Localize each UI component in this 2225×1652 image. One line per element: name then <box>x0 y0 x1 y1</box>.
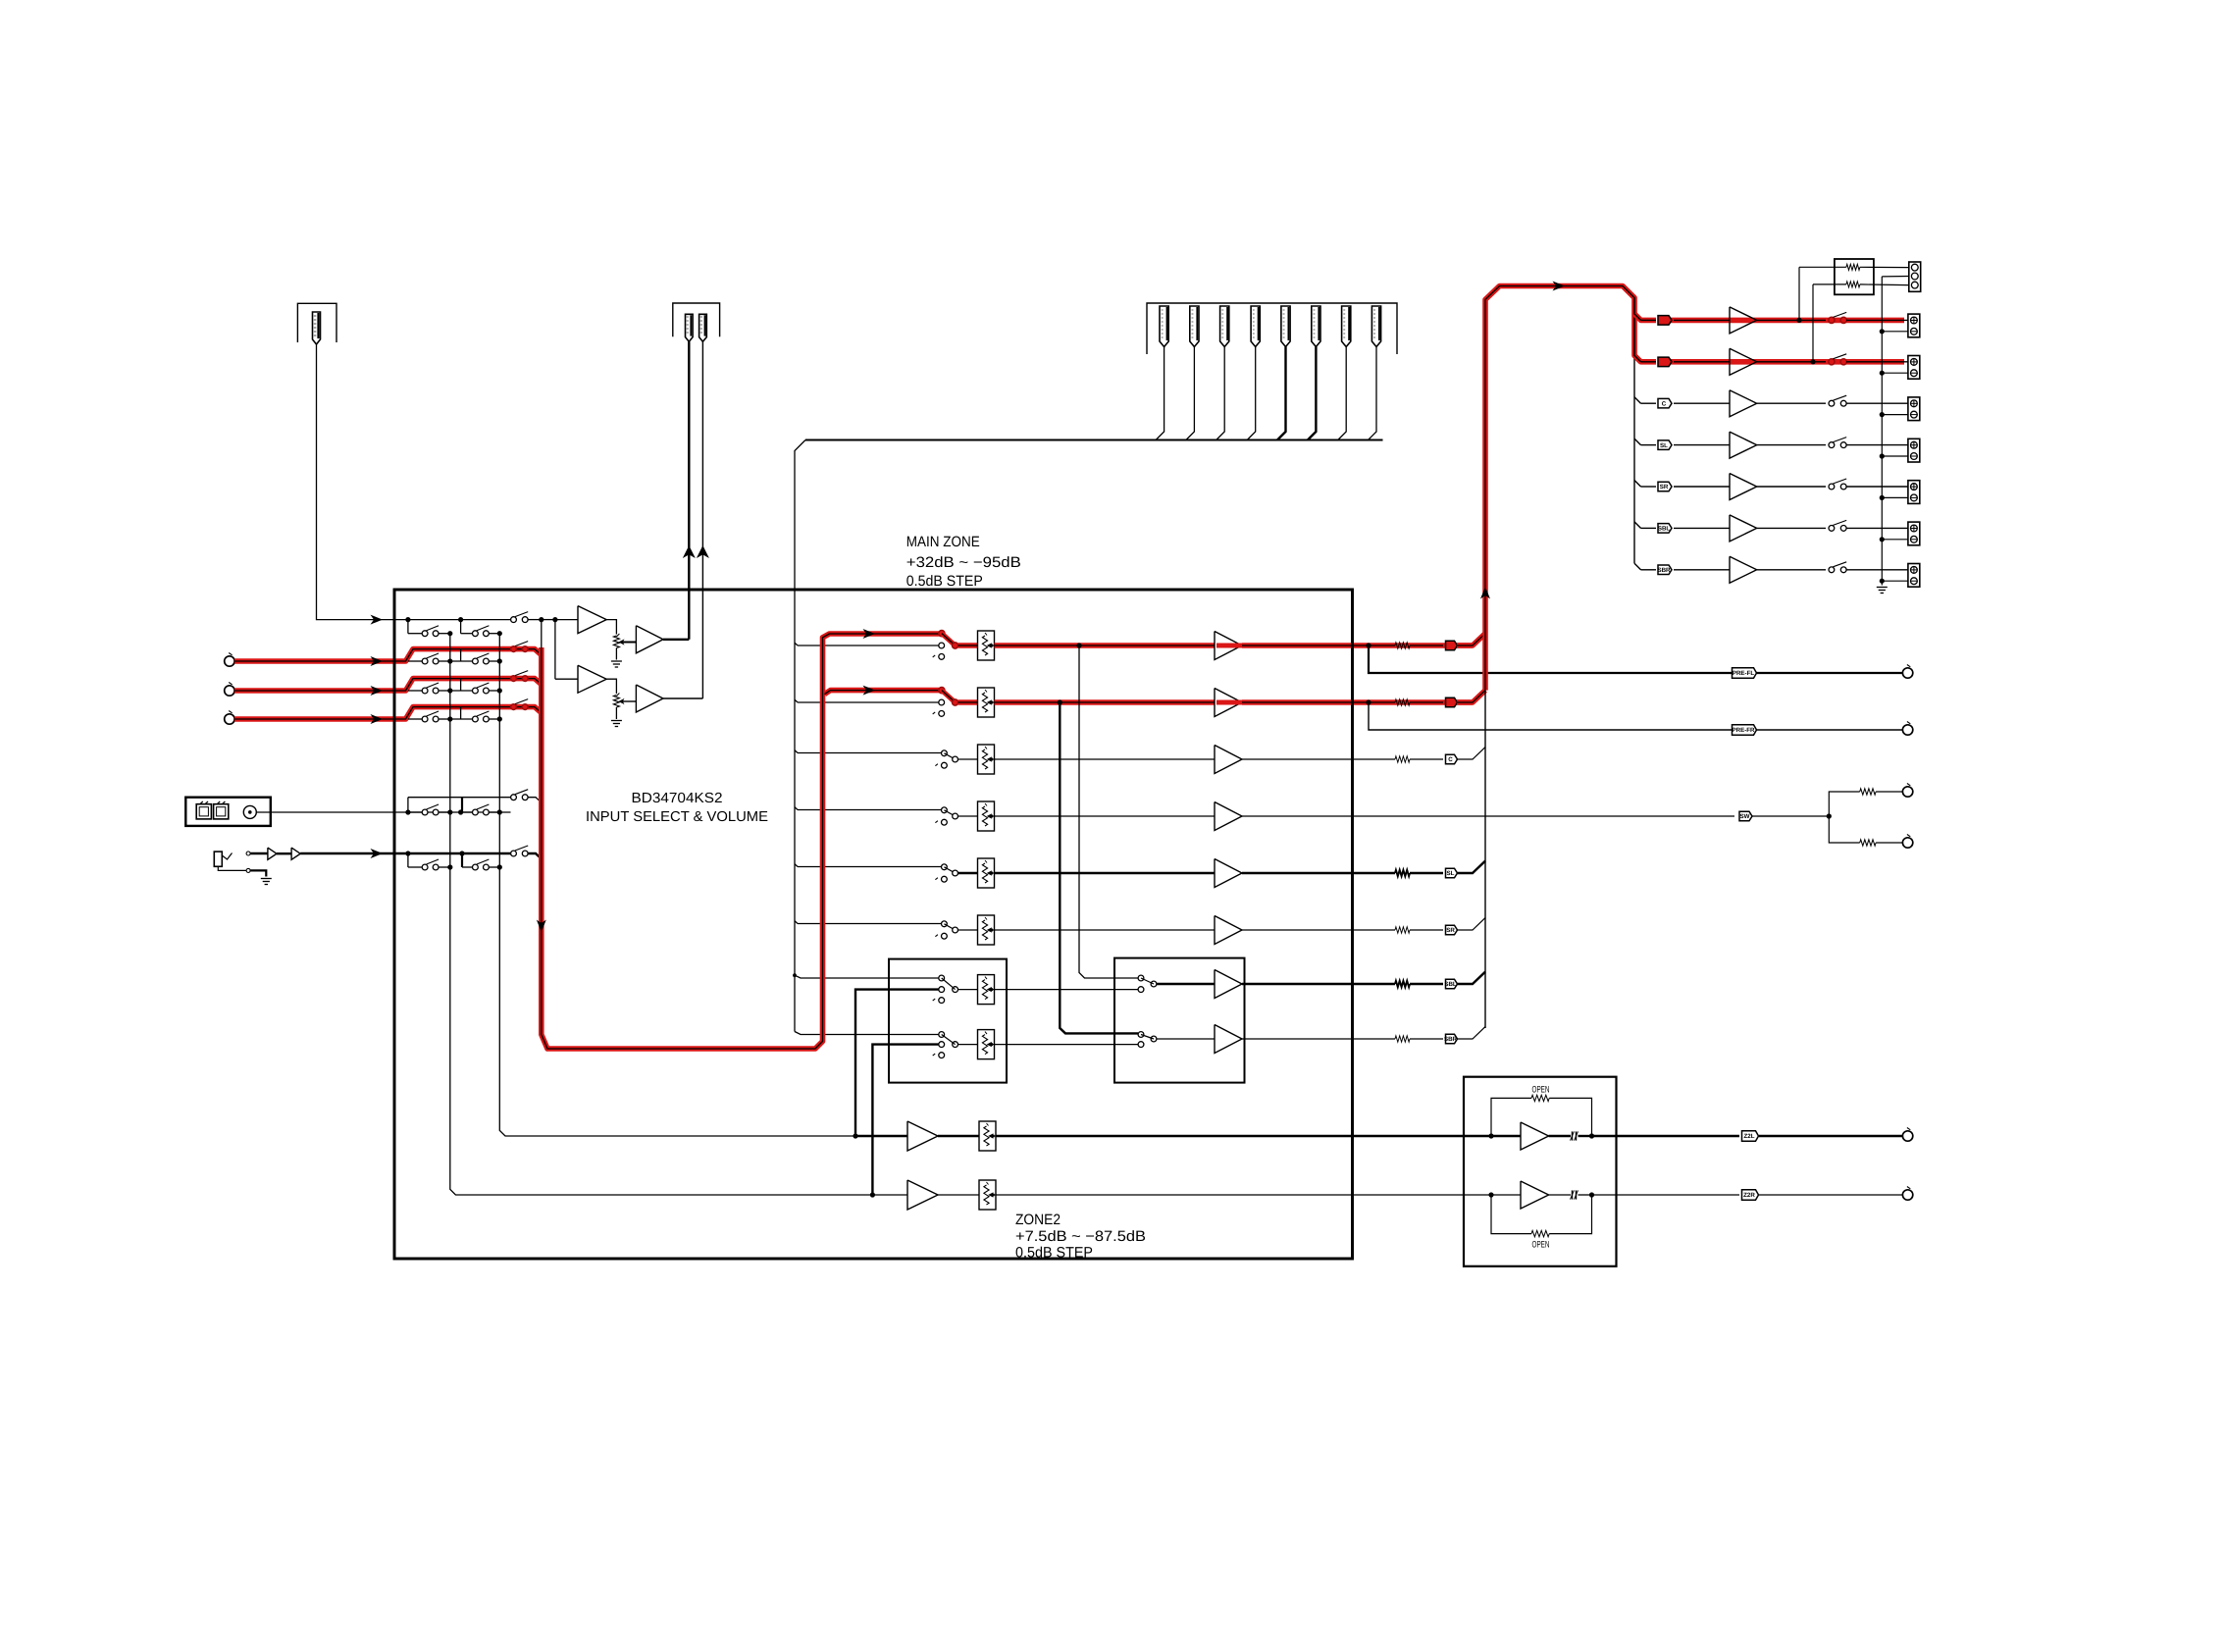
wire SL amp to relay <box>1757 444 1826 446</box>
svg-text:C: C <box>1662 400 1667 407</box>
net tag SR <box>1446 925 1458 935</box>
wire FR relay to terminal <box>1846 361 1908 363</box>
power amp SBR <box>1730 556 1757 583</box>
ground attenuator row1 <box>611 660 622 662</box>
svg-text:SBL: SBL <box>1444 981 1457 988</box>
arrow collector up <box>1480 587 1490 599</box>
selector red row 1 taps <box>408 660 422 662</box>
wire bank pin 3 to DSP bus <box>1216 347 1225 440</box>
wire zone2 R to tag <box>1617 1194 1740 1196</box>
connector bank pin 8 <box>1371 306 1380 347</box>
connector CN top-middle bracket <box>673 303 720 336</box>
SW split lower resistor <box>1829 816 1859 843</box>
attenuator row1 <box>613 636 619 648</box>
wire SR relay to terminal <box>1846 486 1908 488</box>
fan bend SBL <box>1634 522 1641 529</box>
wire C amp to box edge <box>1242 758 1353 760</box>
selector row1 wire (from top-left connector) <box>394 619 511 621</box>
arrow phones input <box>371 849 384 858</box>
arrow red bus down <box>537 920 546 933</box>
selector row1 through switch <box>511 617 517 623</box>
selected-input red bus <box>541 620 543 650</box>
relay switch SBL <box>1829 526 1835 532</box>
feedback resistor OPEN <box>1491 1098 1531 1136</box>
phones jack sleeve wire <box>218 866 246 870</box>
connector bank pin 6 <box>1312 306 1320 347</box>
speaker terminal FL <box>1908 314 1920 337</box>
jack SW+ <box>1902 787 1912 797</box>
zone2 L row (selected) <box>853 1133 857 1138</box>
net tag SBL amp in <box>1641 527 1657 529</box>
wire SBR relay to terminal <box>1846 569 1908 571</box>
selector red row 2 taps <box>408 690 422 692</box>
wire SL to collector <box>1457 861 1485 873</box>
attenuator row2 <box>613 696 619 708</box>
junction FR to SB-assign (selected) <box>1058 699 1062 704</box>
volume switch SL <box>942 864 948 870</box>
amp SW <box>1215 802 1242 831</box>
wire zone2 L selected segment <box>855 1135 907 1137</box>
net tag SBR amp in <box>1641 569 1657 571</box>
svg-text:+7.5dB ~ −87.5dB: +7.5dB ~ −87.5dB <box>1015 1228 1146 1245</box>
connector bank pin 5 <box>1281 306 1290 347</box>
wire C volume to amp <box>995 758 1216 760</box>
connector bank pin 2 <box>1190 306 1199 347</box>
wire FL amp to relay <box>1757 319 1826 321</box>
volume switch C <box>942 750 948 756</box>
wire SBL relay to terminal <box>1846 527 1908 529</box>
relay switch C <box>1829 400 1835 406</box>
wire SBR to collector <box>1457 1027 1485 1039</box>
amp row1 b (zone L) <box>636 626 663 653</box>
selector red row 3 taps <box>408 718 422 720</box>
arrow red feed FR <box>863 686 876 696</box>
red input wire 2 <box>234 679 542 691</box>
net tag SL amp in <box>1641 444 1657 446</box>
zone2 R row <box>870 1192 875 1197</box>
wire SBL to collector <box>1457 972 1485 984</box>
wire sub mid2 to zone2 R <box>872 1045 938 1195</box>
wire FR amp to relay <box>1757 361 1826 363</box>
amp row2 a <box>555 678 578 680</box>
net tag SL <box>1446 868 1458 878</box>
resistor FR out <box>1353 699 1473 705</box>
wire PRE-FL to jack <box>1757 672 1903 674</box>
wire FR to bridge <box>1812 284 1814 362</box>
wire C tag to amp <box>1674 402 1730 404</box>
connector CN top-left body <box>313 312 321 344</box>
SBL select volume <box>958 989 978 991</box>
selector red row 2 through switch <box>511 676 517 682</box>
amp row2 b (zone R) <box>636 685 663 712</box>
SBR assign switch <box>1138 1032 1144 1038</box>
fan bend FR <box>1634 355 1656 362</box>
wire sub mid1 to zone2 L <box>855 990 939 1136</box>
volume switch FL <box>939 643 945 648</box>
bus feed row C <box>795 750 798 753</box>
ground speaker bus <box>1877 587 1888 589</box>
net tag FL <box>1446 641 1458 650</box>
selector row DAC through jog <box>407 798 409 812</box>
arrow collector top <box>1553 282 1566 291</box>
wire FL to collector <box>1457 634 1485 645</box>
wire SW amp to box edge <box>1242 815 1353 817</box>
wire Z2L tag to jack <box>1759 1135 1902 1137</box>
jack PRE-FL <box>1902 668 1912 678</box>
arrow red input 1 <box>371 656 384 666</box>
wire terminal SBL negative to bus <box>1882 539 1908 541</box>
connector bank pin 3 <box>1220 306 1229 347</box>
power amp SL <box>1730 432 1757 458</box>
bus feed SBR select top <box>795 1032 939 1035</box>
net tag PRE-FR <box>1733 725 1757 735</box>
selector row DAC taps <box>405 809 410 814</box>
selector row phones through switch <box>511 851 517 856</box>
wire terminal FL negative to bus <box>1882 331 1908 333</box>
wire bank pin 7 to DSP bus <box>1338 347 1347 440</box>
wire FL relay to terminal <box>1846 319 1908 321</box>
selector red row 3 through switch <box>511 704 517 710</box>
zone2 R volume <box>979 1180 996 1210</box>
svg-text:ZONE2: ZONE2 <box>1015 1212 1061 1228</box>
svg-text:SBL: SBL <box>1658 526 1671 533</box>
ground phones <box>261 878 272 880</box>
power amp FR <box>1730 348 1757 375</box>
wire FR amp to box edge <box>1242 699 1353 705</box>
wire FL volume to amp <box>995 643 1216 648</box>
svg-text:INPUT SELECT & VOLUME: INPUT SELECT & VOLUME <box>586 809 768 825</box>
wire SR amp to box edge <box>1242 929 1353 931</box>
wire FR volume to amp <box>995 699 1216 705</box>
selector red row 1 through switch <box>511 646 517 652</box>
svg-text:SL: SL <box>1660 442 1668 449</box>
amp C <box>1215 746 1242 774</box>
DSP bus corner down <box>795 440 805 1032</box>
red input wire 1 <box>234 649 542 661</box>
bus feed row SW <box>795 807 798 810</box>
amp zone2 L <box>907 1121 938 1151</box>
volume attenuator FR <box>958 699 978 705</box>
SB amp box <box>1114 958 1245 1083</box>
SBR select switch <box>939 1032 945 1038</box>
net tag SBL <box>1446 979 1458 989</box>
zone2 R through OPEN box <box>1464 1194 1521 1196</box>
red bus branch FR <box>825 691 942 695</box>
wire bank pin 4 to DSP bus <box>1247 347 1256 440</box>
jack SW- <box>1902 838 1912 848</box>
wire SR volume to amp <box>995 929 1216 931</box>
fan bend SBR <box>1634 563 1641 570</box>
wire C relay to terminal <box>1846 402 1908 404</box>
connector CN top-middle pin L <box>686 314 694 341</box>
amp SR <box>1215 916 1242 945</box>
wire SL amp to box edge <box>1242 872 1353 874</box>
wire from top-left connector to row1 <box>317 344 395 620</box>
net tag Z2R <box>1742 1190 1759 1200</box>
wire DAC to selector <box>256 811 454 813</box>
wire FL amp to box edge <box>1242 643 1353 648</box>
fan bend C <box>1634 397 1641 404</box>
speaker terminal C <box>1908 397 1920 421</box>
wire SL volume to amp <box>995 872 1216 874</box>
connector bank bracket <box>1147 303 1397 354</box>
DSP bus horizontal <box>805 439 1383 441</box>
jack PRE-FR <box>1902 725 1912 735</box>
selector row phones taps <box>405 851 410 855</box>
input jack 3 <box>225 714 234 724</box>
power amp SR <box>1730 474 1757 500</box>
connector bank pin 4 <box>1251 306 1260 347</box>
arrow red input 3 <box>371 714 384 724</box>
wire C amp to relay <box>1757 402 1826 404</box>
wire bank pin 1 to DSP bus <box>1156 347 1164 440</box>
wire SR to collector <box>1457 918 1485 930</box>
connector CN top-left bracket <box>297 303 336 342</box>
collector riser (red pair) <box>1485 286 1641 691</box>
wire SR amp to relay <box>1757 486 1826 488</box>
wire zone2 L to tag <box>1617 1135 1740 1137</box>
amp zone2 R <box>907 1180 938 1210</box>
zone select sub-box <box>889 959 1007 1083</box>
arrow into selector row1 <box>371 615 384 625</box>
speaker terminal SBR <box>1908 564 1920 588</box>
net tag FR amp in <box>1641 361 1657 363</box>
amp zone2 open L <box>1521 1122 1549 1150</box>
speaker terminal SR <box>1908 481 1920 504</box>
wire SBL amp to relay <box>1757 527 1826 529</box>
net tag FR <box>1446 697 1458 707</box>
headphone buffer amp a <box>268 848 277 859</box>
headphone jack <box>214 852 222 866</box>
wire bank pin 6 to DSP bus <box>1308 347 1317 440</box>
amp FL <box>1215 632 1242 660</box>
wire zone2 L out <box>996 1135 1464 1137</box>
arrow up zone L <box>683 545 696 558</box>
power amp SBL <box>1730 515 1757 542</box>
svg-text:SBR: SBR <box>1657 567 1671 574</box>
SW output line <box>1353 815 1735 817</box>
wire SW to split <box>1752 815 1829 817</box>
wire SBL tag to amp <box>1674 527 1730 529</box>
arrow red input 2 <box>371 686 384 696</box>
input jack 1 <box>225 656 234 666</box>
bus feed row SR <box>795 921 798 924</box>
fan bend FL <box>1634 314 1656 321</box>
svg-text:OPEN: OPEN <box>1532 1240 1550 1251</box>
connector bank pin 7 <box>1342 306 1351 347</box>
volume switch SW <box>942 807 948 813</box>
svg-text:SR: SR <box>1660 484 1669 490</box>
net tag Z2L <box>1742 1131 1759 1141</box>
volume switch SR <box>942 921 948 927</box>
mute contact <box>1572 1131 1574 1140</box>
jack zone2 R <box>1902 1190 1912 1200</box>
zone2 L volume <box>979 1121 996 1151</box>
speaker return bus <box>1881 277 1883 586</box>
wire Z2R tag to jack <box>1759 1194 1902 1196</box>
wire bank pin 8 to DSP bus <box>1369 347 1377 440</box>
arrow red feed FL <box>863 629 876 639</box>
wire SBR amp to relay <box>1757 569 1826 571</box>
SBL select switch <box>939 975 945 981</box>
main IC box border overdraw <box>394 590 1353 1259</box>
net tag SW <box>1739 811 1752 821</box>
wire SW volume to amp <box>995 815 1216 817</box>
speaker terminal SL <box>1908 439 1920 462</box>
net tag FL amp in <box>1641 319 1657 321</box>
SBR select volume <box>958 1044 978 1046</box>
DAC output jack <box>243 805 256 818</box>
SBL assign switch <box>1138 975 1144 981</box>
svg-text:PRE-FL: PRE-FL <box>1733 670 1755 677</box>
volume attenuator SL <box>958 872 978 874</box>
headphone buffer amp b <box>291 848 300 859</box>
net tag SR amp in <box>1641 486 1657 488</box>
svg-text:MAIN ZONE: MAIN ZONE <box>906 534 980 550</box>
wire SBR select to amp box <box>995 1044 1139 1046</box>
relay switch FL <box>1829 317 1835 323</box>
SW split upper resistor <box>1829 792 1859 816</box>
wire bank pin 2 to DSP bus <box>1186 347 1195 440</box>
svg-text:BD34704KS2: BD34704KS2 <box>632 791 723 806</box>
fan bend SL <box>1634 439 1641 445</box>
net tag C amp in <box>1641 402 1657 404</box>
jack zone2 L <box>1902 1131 1912 1141</box>
wire SL tag to amp <box>1674 444 1730 446</box>
wire FL to bridge <box>1798 267 1800 320</box>
wire SBL select to amp box <box>995 989 1139 991</box>
wire phones to selector (selected thick) <box>300 852 510 854</box>
mute contact <box>1572 1190 1574 1199</box>
amp SL <box>1215 859 1242 888</box>
wire FL tag to amp <box>1674 319 1730 321</box>
svg-text:SBR: SBR <box>1444 1036 1458 1043</box>
svg-text:+32dB ~ −95dB: +32dB ~ −95dB <box>906 554 1021 571</box>
bridge resistor lower <box>1813 284 1846 285</box>
svg-text:C: C <box>1448 756 1453 763</box>
volume switch FR <box>939 699 945 705</box>
resistor FL out <box>1353 643 1473 648</box>
resistor SBR out <box>1353 1038 1396 1040</box>
zone2 OPEN box <box>1464 1077 1617 1266</box>
column bus 2 (zone2 feed) <box>499 634 855 1136</box>
wire SR tag to amp <box>1674 486 1730 488</box>
wire terminal SL negative to bus <box>1882 455 1908 457</box>
amp FR <box>1215 689 1242 717</box>
wire zone2 R out <box>996 1194 1464 1196</box>
bus feed SBL select top <box>795 975 939 978</box>
amp SBL <box>1157 983 1215 985</box>
svg-text:Z2R: Z2R <box>1743 1192 1755 1199</box>
bridge resistor box <box>1835 259 1874 294</box>
wire SBR tag to amp <box>1674 569 1730 571</box>
wire SBL amp out <box>1242 983 1353 985</box>
USB DAC input box <box>185 798 270 826</box>
relay switch SR <box>1829 484 1835 490</box>
wire FR tag to amp <box>1674 361 1730 363</box>
bus feed row SL <box>795 864 798 867</box>
power amp C <box>1730 390 1757 417</box>
wire terminal C negative to bus <box>1882 414 1908 416</box>
wire SBR amp out <box>1242 1038 1353 1040</box>
wire zone R to connector <box>701 341 703 698</box>
svg-text:PRE-FR: PRE-FR <box>1732 727 1755 734</box>
pre-out FR branch <box>1366 699 1371 704</box>
wire SL relay to terminal <box>1846 444 1908 446</box>
wire bridge mid to bus <box>1882 276 1909 278</box>
resistor SR out <box>1353 929 1396 931</box>
relay switch SBR <box>1829 567 1835 573</box>
collector lower black <box>1484 691 1486 1028</box>
svg-text:SW: SW <box>1740 813 1750 820</box>
amp row1 a <box>578 606 606 634</box>
volume attenuator SR <box>958 929 978 931</box>
connector CN top-middle pin R <box>699 314 707 341</box>
fan bend SR <box>1634 481 1641 488</box>
main IC box BD34704KS2 INPUT SELECT & VOLUME <box>394 590 1353 1259</box>
amp zone2 open R <box>1521 1181 1549 1209</box>
relay switch SL <box>1829 442 1835 448</box>
selector row DAC through switch <box>511 795 517 800</box>
bus feed row FR <box>795 699 798 702</box>
svg-text:SR: SR <box>1446 927 1455 934</box>
wire bank pin 5 to DSP bus <box>1277 347 1286 440</box>
svg-text:SL: SL <box>1447 870 1455 877</box>
headphone in contact <box>246 852 250 855</box>
svg-text:OPEN: OPEN <box>1532 1084 1550 1095</box>
resistor C out <box>1353 758 1396 760</box>
volume attenuator FL <box>958 643 978 648</box>
svg-text:Z2L: Z2L <box>1743 1133 1754 1140</box>
wire PRE-FR to jack <box>1757 729 1903 731</box>
wire terminal SR negative to bus <box>1882 496 1908 498</box>
feedback resistor OPEN <box>1491 1195 1531 1234</box>
zone2 L through OPEN box <box>1464 1135 1521 1137</box>
wire terminal SBR negative to bus <box>1882 580 1908 582</box>
power amp FL <box>1730 307 1757 334</box>
column bus 1 <box>450 634 907 1195</box>
wire C to collector <box>1457 748 1485 759</box>
wire zone L to connector <box>688 341 690 640</box>
net tag PRE-FL <box>1733 668 1757 678</box>
resistor SL out <box>1353 872 1396 874</box>
volume attenuator C <box>958 758 978 760</box>
wire FR to collector <box>1457 691 1485 702</box>
pre-out FL branch <box>1366 643 1371 647</box>
net tag SBR <box>1446 1034 1458 1044</box>
junction FL to SB-assign <box>1076 643 1081 647</box>
connector bank pin 1 <box>1160 306 1168 347</box>
bridge resistor upper <box>1799 266 1846 268</box>
speaker terminal SBL <box>1908 522 1920 545</box>
volume attenuator SW <box>958 815 978 817</box>
right fan vertical <box>1633 298 1635 564</box>
svg-text:0.5dB STEP: 0.5dB STEP <box>906 573 983 590</box>
input jack 2 <box>225 686 234 696</box>
bus feed row FL <box>795 643 798 645</box>
junction row1 split <box>554 620 556 680</box>
arrow up zone R <box>697 545 709 558</box>
wire terminal FR negative to bus <box>1882 372 1908 374</box>
bridge terminal block <box>1909 262 1921 291</box>
net tag C <box>1446 754 1458 764</box>
red input wire 3 <box>234 707 542 719</box>
amp SBR <box>1157 1038 1215 1040</box>
ground attenuator row2 <box>611 720 622 722</box>
resistor SBL out <box>1353 983 1396 985</box>
speaker terminal FR <box>1908 356 1920 380</box>
relay switch FR <box>1829 359 1835 365</box>
